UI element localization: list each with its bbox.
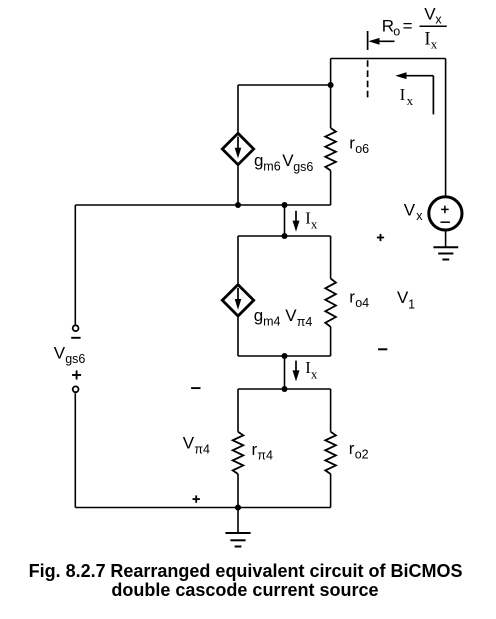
svg-text:o: o [393, 25, 400, 39]
svg-text:x: x [435, 12, 442, 26]
svg-text:I: I [400, 85, 406, 104]
svg-text:m6: m6 [263, 160, 280, 174]
svg-text:g: g [254, 306, 263, 325]
svg-text:Fig. 8.2.7: Fig. 8.2.7 [29, 561, 106, 581]
svg-text:x: x [311, 366, 318, 381]
svg-text:x: x [311, 217, 318, 232]
svg-text:V: V [183, 434, 195, 453]
svg-text:V: V [285, 306, 297, 325]
svg-text:x: x [407, 93, 414, 108]
svg-text:V: V [404, 201, 416, 220]
svg-text:Rearranged equivalent circuit: Rearranged equivalent circuit of BiCMOS [110, 561, 462, 581]
svg-text:double cascode current source: double cascode current source [111, 580, 378, 600]
svg-text:o2: o2 [355, 447, 369, 461]
svg-text:1: 1 [408, 298, 415, 312]
svg-text:gs6: gs6 [65, 352, 85, 366]
svg-text:o4: o4 [355, 296, 369, 310]
svg-text:=: = [403, 16, 413, 35]
svg-text:gs6: gs6 [293, 160, 313, 174]
svg-text:x: x [416, 209, 423, 223]
svg-text:π4: π4 [297, 315, 313, 329]
svg-text:π4: π4 [194, 443, 210, 457]
svg-text:π4: π4 [257, 449, 273, 463]
svg-text:m4: m4 [263, 315, 280, 329]
svg-text:V: V [54, 344, 66, 363]
svg-text:o6: o6 [355, 142, 369, 156]
svg-text:I: I [424, 29, 430, 49]
svg-text:x: x [431, 37, 438, 52]
svg-text:g: g [254, 151, 263, 170]
